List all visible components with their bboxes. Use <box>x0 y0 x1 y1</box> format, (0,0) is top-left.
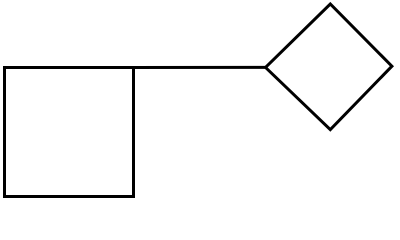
wire (connector from square to diamond) <box>134 66 266 69</box>
decision box (diamond) <box>266 4 392 130</box>
process box (square) <box>5 68 134 197</box>
